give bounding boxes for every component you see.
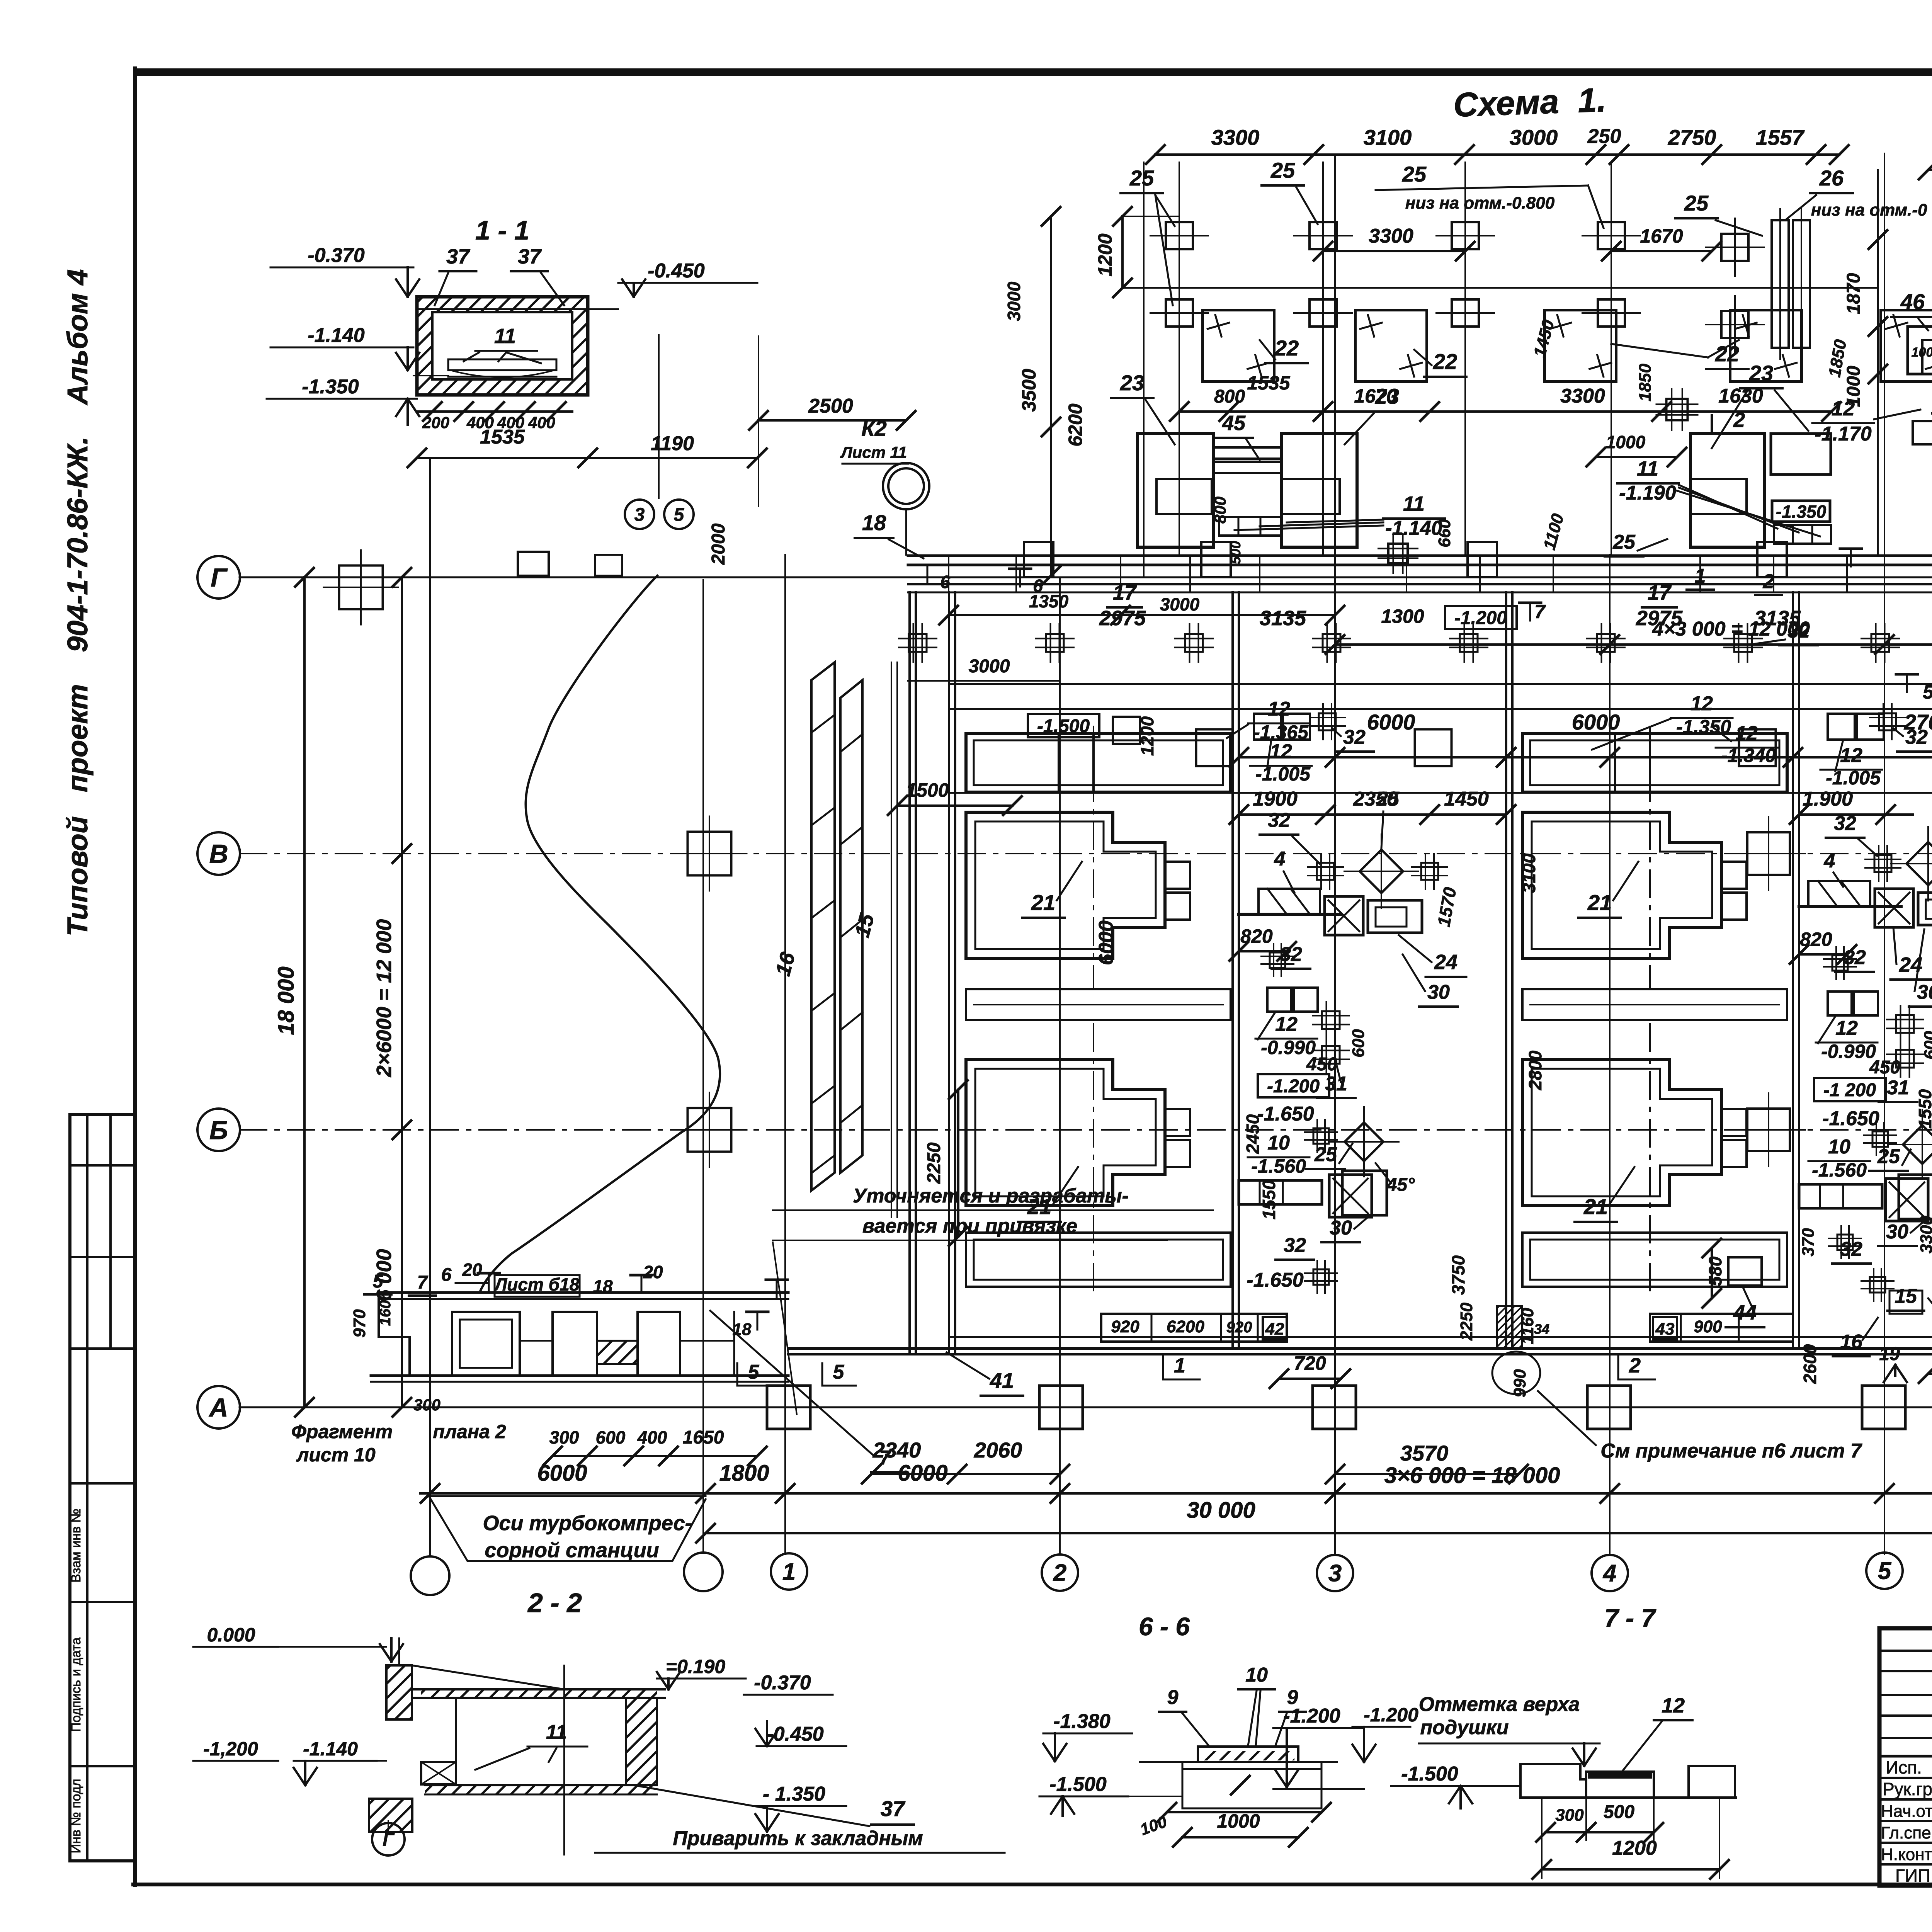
footing square 12c xyxy=(1739,730,1776,766)
bay1 upper foundation inner step xyxy=(1112,812,1114,842)
svg-text:30: 30 xyxy=(1330,1217,1352,1239)
section 7-7 left step xyxy=(1520,1764,1586,1779)
turbo axis line left xyxy=(429,458,431,1556)
svg-text:2750: 2750 xyxy=(1668,125,1716,150)
corridor2 stack hash rects xyxy=(1896,1015,1914,1033)
plan left secondary lines xyxy=(891,662,892,1217)
weld symbol 18 left xyxy=(747,1311,768,1313)
bay1 lower machine foundation 21 xyxy=(966,1060,1165,1206)
hash square below 11 xyxy=(1388,544,1408,563)
svg-text:5: 5 xyxy=(748,1361,760,1383)
svg-text:2975: 2975 xyxy=(1636,607,1683,630)
bay1 mid strip xyxy=(966,989,1231,1020)
svg-text:1850: 1850 xyxy=(1636,364,1655,401)
row of hash footings 32 under band xyxy=(909,634,927,652)
footing square 25 row1 a xyxy=(1166,222,1193,249)
hash square right cluster xyxy=(1667,399,1688,420)
svg-text:1000: 1000 xyxy=(1844,366,1864,407)
svg-text:22: 22 xyxy=(1274,336,1299,360)
stippled rect note xyxy=(1497,1306,1522,1349)
section 1-1 tank walls hatched xyxy=(417,297,588,395)
svg-text:19: 19 xyxy=(1879,1344,1900,1364)
corridor2 bottom X square xyxy=(1886,1179,1928,1221)
svg-text:26: 26 xyxy=(1819,166,1844,190)
svg-text:3000: 3000 xyxy=(1510,125,1558,150)
svg-text:6 - 6: 6 - 6 xyxy=(1139,1612,1190,1641)
corridor2 hash sq lower xyxy=(1832,955,1848,971)
left margin attachment table xyxy=(68,1114,71,1861)
svg-text:21: 21 xyxy=(1587,890,1612,915)
svg-text:-1.200: -1.200 xyxy=(1283,1705,1340,1727)
svg-text:подушки: подушки xyxy=(1420,1716,1509,1739)
svg-text:2: 2 xyxy=(1733,408,1745,432)
section cut mark 6 band b xyxy=(1009,568,1031,570)
svg-text:3: 3 xyxy=(1328,1560,1342,1587)
column circle turbo right xyxy=(684,1553,723,1591)
svg-text:580: 580 xyxy=(1705,1256,1725,1286)
svg-text:300: 300 xyxy=(413,1396,440,1414)
svg-text:3135: 3135 xyxy=(1260,607,1306,630)
svg-text:3300: 3300 xyxy=(1560,385,1605,407)
svg-text:18 000: 18 000 xyxy=(274,966,299,1035)
svg-text:-1.200: -1.200 xyxy=(1454,608,1507,628)
section cut line 3-5 xyxy=(658,335,660,498)
svg-text:-1.350: -1.350 xyxy=(1776,502,1827,522)
boxed level -1.200 band xyxy=(1445,606,1517,629)
section 2-2 pit walls xyxy=(455,1698,457,1785)
fragment plan2 room c xyxy=(638,1312,680,1376)
svg-text:25: 25 xyxy=(1684,191,1709,215)
svg-text:24: 24 xyxy=(1434,951,1458,974)
svg-text:Оси турбокомпрес-: Оси турбокомпрес- xyxy=(483,1512,692,1535)
svg-text:6000: 6000 xyxy=(1572,710,1620,734)
boxed level -1.200 corridor2 xyxy=(1814,1078,1886,1101)
svg-text:12: 12 xyxy=(1275,1013,1298,1036)
svg-text:12: 12 xyxy=(1835,1017,1858,1039)
svg-text:1200: 1200 xyxy=(1094,233,1116,276)
svg-text:37: 37 xyxy=(446,245,471,268)
plan bottom inner line xyxy=(949,1336,1932,1338)
corridor1 diamond 25 xyxy=(1360,850,1403,893)
section 1-1 dims 200 400 400 400 xyxy=(417,410,572,413)
svg-text:3100: 3100 xyxy=(1930,919,1932,959)
svg-text:2500: 2500 xyxy=(808,395,853,417)
corridor1 bottom X square xyxy=(1329,1175,1372,1217)
svg-text:0.000: 0.000 xyxy=(207,1624,255,1646)
bay2 bottom slab rect xyxy=(1522,1233,1787,1287)
corridor2 hash bottom a xyxy=(1837,1235,1853,1250)
svg-text:20: 20 xyxy=(462,1260,482,1280)
column circle 3 xyxy=(1317,1555,1353,1591)
svg-text:1: 1 xyxy=(1695,565,1706,587)
corridor1 wall mid xyxy=(1239,913,1341,916)
svg-text:3300: 3300 xyxy=(1211,125,1260,150)
svg-text:990: 990 xyxy=(1510,1369,1529,1398)
svg-text:1550: 1550 xyxy=(1259,1180,1279,1219)
svg-text:-1.200: -1.200 xyxy=(1364,1704,1418,1726)
svg-text:25: 25 xyxy=(1376,788,1400,810)
svg-text:2: 2 xyxy=(1053,1560,1066,1587)
svg-text:1: 1 xyxy=(1174,1354,1185,1377)
svg-text:6000: 6000 xyxy=(1095,920,1117,965)
fragment plan2 room a xyxy=(452,1312,520,1376)
svg-text:=0.190: =0.190 xyxy=(666,1656,726,1677)
svg-text:А: А xyxy=(208,1393,228,1422)
top field vertical line col b xyxy=(1322,162,1324,555)
svg-text:15: 15 xyxy=(1895,1285,1917,1308)
svg-text:20: 20 xyxy=(643,1262,663,1282)
svg-text:-1,200: -1,200 xyxy=(203,1738,258,1760)
bay1 upper machine foundation 21 xyxy=(966,812,1165,958)
column circle 5 xyxy=(1866,1553,1903,1589)
svg-text:25: 25 xyxy=(1270,158,1295,182)
footing square 25 row2 c xyxy=(1452,299,1479,327)
boxed level -1.350 right xyxy=(1772,501,1830,522)
svg-text:32: 32 xyxy=(1268,809,1290,832)
svg-text:3100: 3100 xyxy=(1364,125,1412,150)
svg-text:2: 2 xyxy=(1763,570,1774,593)
svg-text:500: 500 xyxy=(1604,1802,1634,1822)
section 1-1 pads inside xyxy=(448,359,556,370)
boxed level -1.200 corridor1 xyxy=(1258,1074,1329,1097)
svg-text:11: 11 xyxy=(546,1721,567,1743)
title block signature rows xyxy=(1879,1755,1932,1758)
corridor1 pair rects mid xyxy=(1267,988,1291,1012)
machine footing 22 b xyxy=(1355,310,1427,382)
footing square on axis A col3 xyxy=(1313,1386,1356,1429)
section 7-7 pad 12 xyxy=(1586,1772,1654,1798)
section cut mark 5 top xyxy=(1896,673,1918,676)
section 6-6 floor lines xyxy=(1140,1761,1198,1763)
foundation block 23 middle xyxy=(1281,434,1357,547)
svg-text:600: 600 xyxy=(1921,1031,1932,1060)
axis circle A xyxy=(197,1386,240,1429)
title block outline xyxy=(1879,1628,1932,1886)
section 2-2 left column hatched xyxy=(386,1665,412,1719)
svg-text:45°: 45° xyxy=(1386,1175,1415,1195)
junction rect on band left xyxy=(518,552,549,576)
svg-text:Г: Г xyxy=(211,563,228,592)
boxed level -1.500 xyxy=(1028,714,1099,737)
svg-text:1900: 1900 xyxy=(1253,788,1298,810)
svg-text:-1.500: -1.500 xyxy=(1049,1773,1107,1796)
footing square G2 xyxy=(1113,717,1140,744)
footing square 25 row1 d xyxy=(1598,222,1625,249)
svg-text:18: 18 xyxy=(733,1320,752,1339)
svg-text:2450: 2450 xyxy=(1243,1114,1263,1154)
footing square 25 row2 d xyxy=(1598,299,1625,327)
svg-text:46: 46 xyxy=(1900,289,1925,314)
svg-text:6200: 6200 xyxy=(1065,403,1086,446)
pads row 11 left xyxy=(1219,517,1281,536)
machine footing 22 d xyxy=(1730,310,1802,382)
bay1 corridor wall left xyxy=(1231,592,1234,1349)
corridor2 hash bottom b xyxy=(1870,1277,1885,1293)
svg-text:3500: 3500 xyxy=(1018,369,1040,412)
footing square 25 row1 b xyxy=(1310,222,1337,249)
weld symbol 20 b xyxy=(631,1274,652,1277)
bay2 upper machine foundation 21 xyxy=(1522,812,1721,958)
bay1 bottom slab rect xyxy=(966,1233,1231,1287)
svg-text:30: 30 xyxy=(1886,1221,1908,1243)
column circle 4 xyxy=(1592,1555,1628,1591)
section 7-7 base line xyxy=(1520,1796,1736,1799)
svg-text:23: 23 xyxy=(1749,361,1773,385)
sheet border frame left xyxy=(133,68,137,1885)
svg-text:2×6000 = 12 000: 2×6000 = 12 000 xyxy=(372,919,396,1077)
corridor1 pair rects top xyxy=(1254,714,1281,740)
svg-text:2250: 2250 xyxy=(1457,1303,1476,1341)
corridor1 bottom cluster rows xyxy=(1239,1180,1322,1204)
svg-text:22: 22 xyxy=(1433,349,1457,374)
svg-text:920: 920 xyxy=(1111,1317,1139,1336)
svg-text:1450: 1450 xyxy=(1444,788,1489,810)
fragment plan2 bottom wall xyxy=(371,1374,788,1377)
section cut circles 3 5 top left xyxy=(625,500,654,529)
section 7-7 right step xyxy=(1689,1766,1735,1798)
bay1 upper centerline vertical xyxy=(1093,726,1094,989)
footing square 12b xyxy=(1415,730,1452,766)
axis line V dash-dot xyxy=(240,853,1932,854)
top field vertical line col d xyxy=(1611,162,1612,555)
svg-text:-1.350: -1.350 xyxy=(302,376,359,398)
svg-text:Нач.отд.: Нач.отд. xyxy=(1881,1802,1932,1821)
svg-text:-0.990: -0.990 xyxy=(1821,1041,1876,1062)
svg-text:1300: 1300 xyxy=(1381,605,1424,627)
svg-text:21: 21 xyxy=(1583,1194,1608,1219)
fragment plan2 inner lines xyxy=(520,1340,553,1342)
svg-text:-1.170: -1.170 xyxy=(1815,423,1872,445)
footing square on axis A col5 xyxy=(1862,1386,1905,1429)
svg-text:18: 18 xyxy=(593,1276,613,1296)
svg-text:2600: 2600 xyxy=(1800,1344,1820,1384)
svg-text:1650: 1650 xyxy=(683,1427,724,1448)
svg-text:3×6 000 = 18 000: 3×6 000 = 18 000 xyxy=(1384,1463,1560,1488)
svg-text:450: 450 xyxy=(1869,1057,1900,1078)
svg-text:6000: 6000 xyxy=(1367,710,1415,734)
top field vertical line left chain xyxy=(1143,162,1145,576)
svg-text:1870: 1870 xyxy=(1844,273,1864,314)
svg-text:1.900: 1.900 xyxy=(1803,788,1853,810)
foundation block 23 left xyxy=(1138,434,1213,547)
column circle 2 xyxy=(1042,1554,1078,1591)
svg-text:5: 5 xyxy=(674,505,685,525)
left formwork strip 15 xyxy=(840,680,862,1173)
machine footing 22 a xyxy=(1203,310,1274,382)
svg-text:Схема 1.: Схема 1. xyxy=(1453,80,1607,124)
svg-text:1557: 1557 xyxy=(1756,125,1805,150)
column circle turbo left xyxy=(411,1556,449,1595)
axis circle G xyxy=(197,556,240,599)
svg-text:1670: 1670 xyxy=(1640,225,1683,247)
svg-text:400: 400 xyxy=(637,1427,667,1447)
dimension line footing row xyxy=(1239,756,1932,759)
top field vertical line col e xyxy=(1877,170,1879,555)
section 2-2 crossed embed xyxy=(421,1762,456,1784)
svg-text:32: 32 xyxy=(1343,726,1366,748)
footing square on axis A col4 xyxy=(1587,1386,1631,1429)
svg-text:-1.140: -1.140 xyxy=(303,1738,358,1760)
svg-text:30: 30 xyxy=(1917,981,1932,1003)
corridor2 cluster inner rect xyxy=(1918,893,1932,925)
svg-text:37: 37 xyxy=(518,245,542,268)
svg-text:7: 7 xyxy=(879,1447,891,1469)
svg-text:1500: 1500 xyxy=(906,779,949,801)
svg-text:23: 23 xyxy=(1375,384,1399,408)
corridor1 hatch strip 4 xyxy=(1259,889,1320,914)
svg-text:-1.340: -1.340 xyxy=(1721,745,1776,766)
svg-text:25: 25 xyxy=(1877,1145,1900,1168)
corridor2 wall mid xyxy=(1799,905,1901,908)
svg-text:45: 45 xyxy=(1222,412,1246,435)
svg-text:32: 32 xyxy=(1280,943,1302,966)
callout osi turbokompressornoi stantsii xyxy=(429,1495,706,1497)
svg-text:ГИП: ГИП xyxy=(1895,1866,1930,1886)
svg-text:25: 25 xyxy=(1402,162,1427,186)
corridor1 hash sq lower xyxy=(1270,952,1285,968)
svg-text:30: 30 xyxy=(1427,981,1450,1003)
svg-text:9: 9 xyxy=(1167,1686,1179,1709)
svg-text:12: 12 xyxy=(1662,1694,1685,1717)
svg-text:Гл.спец.: Гл.спец. xyxy=(1881,1823,1932,1842)
plan left outer wall xyxy=(908,592,911,1354)
band joint ticks xyxy=(948,556,949,592)
svg-text:800: 800 xyxy=(1214,386,1245,407)
svg-text:4: 4 xyxy=(1274,848,1286,870)
machine footing 22 e xyxy=(1881,310,1932,382)
svg-text:5: 5 xyxy=(1878,1558,1892,1585)
svg-text:720: 720 xyxy=(1294,1352,1326,1374)
svg-text:300: 300 xyxy=(549,1427,579,1447)
svg-text:Фрагмент: Фрагмент xyxy=(291,1421,393,1442)
svg-text:300: 300 xyxy=(1555,1806,1584,1825)
fragment plan2 hatched block xyxy=(597,1341,638,1364)
svg-text:600: 600 xyxy=(1349,1029,1368,1058)
bay1 corridor wall right xyxy=(1505,592,1507,1349)
svg-text:32: 32 xyxy=(1905,726,1928,748)
svg-text:370: 370 xyxy=(1799,1228,1818,1257)
footing square on axis A col2 xyxy=(1039,1386,1083,1429)
svg-text:Приварить к закладным: Приварить к закладным xyxy=(673,1827,923,1850)
axis line G xyxy=(240,577,908,578)
corridor2 diamond 25 xyxy=(1906,842,1932,885)
corridor2 bottom cluster rows xyxy=(1799,1184,1882,1208)
svg-text:12: 12 xyxy=(1690,692,1713,715)
svg-text:-1.380: -1.380 xyxy=(1053,1710,1111,1733)
svg-text:3: 3 xyxy=(634,505,645,525)
footing square on axis B left xyxy=(688,1108,731,1152)
machine footing 22 c xyxy=(1545,310,1616,382)
axis circle V xyxy=(197,832,240,875)
bay2 lower machine foundation 21 xyxy=(1522,1060,1721,1206)
svg-text:25: 25 xyxy=(1129,166,1154,190)
svg-text:41: 41 xyxy=(990,1368,1014,1393)
section 2-2 center line xyxy=(563,1665,565,1855)
svg-text:6: 6 xyxy=(940,572,950,592)
left formwork strip 16 xyxy=(811,662,835,1190)
top field horizontal tie line xyxy=(1122,287,1878,289)
sheet border frame top xyxy=(133,68,1932,76)
svg-text:160: 160 xyxy=(377,1300,394,1326)
section 2-2 deck slope line xyxy=(412,1665,564,1689)
bay2 lower centerline vertical xyxy=(1649,1024,1651,1294)
corridor2 hash sq top xyxy=(1879,713,1896,730)
corridor1 lower diamond xyxy=(1345,1122,1383,1161)
axis circle B xyxy=(197,1109,240,1151)
corridor2 hash squares mid xyxy=(1874,855,1891,872)
svg-text:См примечание п6 лист 7: См примечание п6 лист 7 xyxy=(1600,1440,1862,1462)
svg-text:6: 6 xyxy=(1033,576,1043,596)
corridor2 lower diamond xyxy=(1903,1125,1932,1164)
svg-text:1535: 1535 xyxy=(480,426,525,448)
section 2-2 axis circle G xyxy=(388,1821,389,1832)
svg-text:-1.560: -1.560 xyxy=(1251,1155,1306,1177)
svg-text:3000: 3000 xyxy=(969,656,1010,677)
svg-text:-0.370: -0.370 xyxy=(308,244,365,267)
corridor2 pair rects mid xyxy=(1828,992,1852,1015)
svg-text:30 000: 30 000 xyxy=(1187,1498,1255,1523)
section 1-1 top slab line xyxy=(417,308,588,310)
K2 drop pipe circle xyxy=(883,463,929,509)
bay1 bottom strip row xyxy=(1101,1314,1287,1342)
svg-text:сорной станции: сорной станции xyxy=(485,1539,659,1562)
column line 5 xyxy=(1884,153,1885,1554)
svg-text:44: 44 xyxy=(1733,1301,1757,1324)
section 2-2 deck slab xyxy=(412,1688,665,1690)
corridor2 cluster X square xyxy=(1875,889,1913,927)
svg-text:Инв № подл: Инв № подл xyxy=(69,1779,83,1854)
svg-text:Рук.гр.: Рук.гр. xyxy=(1883,1779,1932,1799)
corridor1 bottom big square xyxy=(1342,1171,1387,1215)
svg-text:5: 5 xyxy=(373,1271,384,1292)
svg-text:400: 400 xyxy=(528,413,555,432)
svg-text:800: 800 xyxy=(1211,497,1229,524)
svg-text:1000: 1000 xyxy=(1217,1810,1260,1832)
svg-text:-0.450: -0.450 xyxy=(648,260,705,282)
corridor2 pair rects top xyxy=(1828,714,1855,740)
hall top strip line c xyxy=(949,792,1932,794)
hall top strip line b xyxy=(949,708,1932,710)
wall band along axis G lines xyxy=(908,554,1932,557)
svg-text:37: 37 xyxy=(881,1796,906,1821)
svg-text:-1.005: -1.005 xyxy=(1255,763,1311,785)
svg-text:Взам инв №: Взам инв № xyxy=(69,1509,83,1583)
svg-text:100: 100 xyxy=(1912,345,1932,360)
svg-text:1800: 1800 xyxy=(719,1461,769,1486)
svg-text:22: 22 xyxy=(1715,342,1739,366)
svg-text:21: 21 xyxy=(1027,1194,1051,1219)
plan left inner wall xyxy=(948,592,950,1354)
foundation block right small xyxy=(1771,434,1831,474)
pads 11 right rects xyxy=(1774,525,1831,544)
svg-text:7: 7 xyxy=(417,1272,429,1293)
bay2 right wall xyxy=(1792,592,1794,1349)
svg-text:43: 43 xyxy=(1655,1320,1675,1338)
svg-text:10: 10 xyxy=(1828,1136,1850,1158)
section 2-2 pit floor xyxy=(425,1784,657,1786)
left vertical dimension 2x6000=12000 xyxy=(401,577,403,1407)
svg-text:-1 200: -1 200 xyxy=(1823,1080,1876,1100)
svg-text:Типовой проект 904-1-70.8: Типовой проект 904-1-70.86-КЖ. Альбом 4 xyxy=(61,269,94,937)
svg-text:Лист б18: Лист б18 xyxy=(494,1274,580,1294)
boxed label 43 xyxy=(1653,1317,1677,1339)
svg-text:Подпись и дата: Подпись и дата xyxy=(69,1638,83,1732)
svg-text:10: 10 xyxy=(1245,1664,1268,1686)
svg-text:-1.190: -1.190 xyxy=(1619,482,1676,504)
svg-text:12: 12 xyxy=(1735,722,1758,745)
axis line A xyxy=(240,1406,1932,1408)
break wavy cut line xyxy=(481,576,720,1290)
